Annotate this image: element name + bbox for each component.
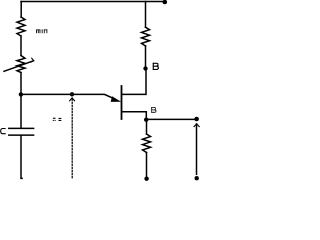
value label C [1,129,6,134]
wire RC bottom lead [145,46,147,69]
wire output arrow vertical [196,124,198,174]
wire mid horizontal to transistor base [21,94,114,98]
wire left drop from rail [20,2,22,18]
transistor Q1 base arrowhead [111,96,122,102]
wire pot to mid node [20,73,22,95]
resistor Rmin [17,17,25,36]
resistor RC [142,27,150,46]
resistor RE [143,134,151,153]
wire RE to bottom terminal [146,153,148,178]
node output terminal [194,117,199,122]
wire capacitor to bottom end [21,136,22,179]
node bottom-right terminal [195,176,199,180]
node junction emitter [144,118,148,122]
wire between Rmin and potentiometer [20,36,22,56]
wire top rail [21,1,165,3]
potentiometer P1 [17,56,25,73]
probe arrowhead [70,98,75,101]
wire dotted impedance probe [71,99,73,179]
capacitor C [9,127,34,129]
node label B [153,63,158,69]
transistor Q1 bar [121,86,123,119]
wire collector lead [122,69,146,95]
output arrowhead [194,124,199,127]
value label z = [53,118,62,121]
wire mid node down to capacitor [20,94,22,127]
node bottom-left terminal [144,177,148,181]
wire RC to top rail [145,2,147,28]
node label B small [152,107,156,112]
node junction left-mid [19,92,23,96]
node junction probe [70,92,74,96]
value label min [36,29,47,33]
node top-right terminal [163,0,168,4]
node B [143,66,147,70]
potentiometer wiper arrow [4,61,34,72]
wire node to RE [146,120,148,134]
wire emitter lead [122,112,146,120]
wire lower horizontal to output [146,118,196,120]
